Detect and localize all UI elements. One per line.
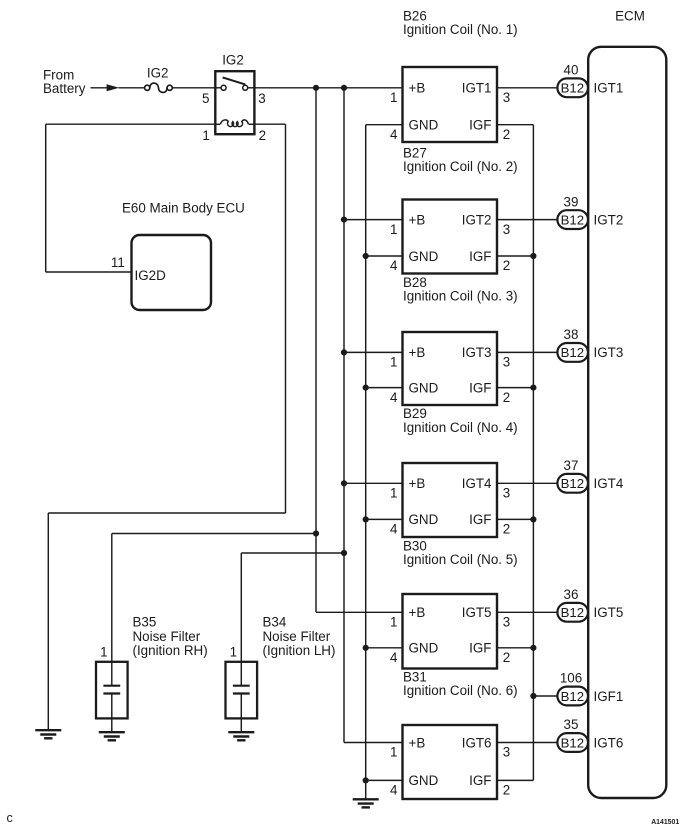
connector B12 pin 106 (IGF1) bbox=[557, 687, 588, 706]
svg-text:B12: B12 bbox=[561, 212, 584, 227]
noise filter B35 (capacitor) bbox=[111, 662, 113, 685]
wire: noise filter B34 feed up/right to bus B bbox=[241, 552, 344, 554]
svg-text:3: 3 bbox=[503, 90, 510, 105]
wire: GND bus vertical bbox=[365, 125, 367, 800]
svg-text:4: 4 bbox=[390, 127, 398, 142]
svg-text:IGT6: IGT6 bbox=[462, 735, 492, 750]
svg-text:E60 Main Body ECU: E60 Main Body ECU bbox=[122, 200, 245, 215]
connector IG2D box bbox=[132, 235, 212, 310]
junction: bus B to B28 +B bbox=[341, 349, 347, 355]
svg-text:(Ignition RH): (Ignition RH) bbox=[133, 643, 208, 658]
svg-text:1: 1 bbox=[390, 615, 397, 630]
wire: coil B27 IGF pin 2 out bbox=[497, 255, 533, 257]
junction: GND bus at coil B30 bbox=[363, 645, 369, 651]
ground: B35 earth bbox=[99, 732, 125, 740]
ignition coil B29 body bbox=[403, 463, 498, 537]
wire: GND bus to coil B27 pin 4 bbox=[366, 255, 403, 257]
wire: relay pin 2 ground run left bbox=[48, 512, 285, 514]
svg-text:IGT5: IGT5 bbox=[462, 605, 492, 620]
wire: bus B to coil B27 +B bbox=[344, 219, 403, 221]
wire: relay pin 5 internal stub bbox=[215, 87, 221, 89]
svg-text:IGT4: IGT4 bbox=[594, 476, 624, 491]
svg-text:1: 1 bbox=[100, 645, 107, 660]
wire: coil B30 IGF pin 2 out bbox=[497, 647, 533, 649]
svg-text:B34: B34 bbox=[263, 615, 287, 630]
svg-text:IGT2: IGT2 bbox=[594, 212, 624, 227]
junction: bus B to B29 +B bbox=[341, 480, 347, 486]
svg-text:IGF: IGF bbox=[469, 249, 491, 264]
svg-text:IGT1: IGT1 bbox=[594, 81, 624, 96]
ignition coil B26 body bbox=[403, 67, 498, 142]
junction: IGF bus at coil B27 bbox=[530, 253, 536, 259]
svg-text:3: 3 bbox=[503, 222, 510, 237]
wire: relay pin 2 run right bbox=[254, 123, 285, 125]
connector B12 pin 35 (IGT6) bbox=[557, 733, 588, 752]
wire: coil B31 IGT pin 3 out bbox=[497, 742, 557, 744]
svg-text:IG2D: IG2D bbox=[135, 268, 167, 283]
svg-text:3: 3 bbox=[503, 615, 510, 630]
svg-text:2: 2 bbox=[503, 522, 510, 537]
svg-text:GND: GND bbox=[409, 641, 439, 656]
connector B12 pin 36 (IGT5) bbox=[557, 603, 588, 622]
wire: bus B to coil B31 +B bbox=[344, 742, 403, 744]
svg-text:c: c bbox=[7, 811, 13, 825]
noise filter B34 (capacitor) bbox=[240, 662, 242, 685]
connector B12 pin 38 (IGT3) bbox=[557, 343, 588, 362]
svg-text:IGF: IGF bbox=[469, 773, 491, 788]
wire: battery feed into arrow bbox=[91, 87, 108, 89]
ignition coil B27 body bbox=[403, 200, 498, 274]
svg-text:2: 2 bbox=[503, 258, 510, 273]
svg-text:+B: +B bbox=[409, 81, 426, 96]
connector B12 pin 39 (IGT2) bbox=[557, 210, 588, 229]
ignition coil B30 body bbox=[403, 594, 498, 669]
ignition coil B28 body bbox=[403, 332, 498, 405]
svg-text:GND: GND bbox=[409, 249, 439, 264]
wire: GND bus to coil B26 pin 4 bbox=[366, 124, 403, 126]
svg-text:IGT3: IGT3 bbox=[462, 345, 492, 360]
junction: IGF bus at coil B29 bbox=[530, 516, 536, 522]
wire: +B bus A vertical bbox=[315, 88, 317, 613]
wire: IGF bus vertical bbox=[532, 125, 534, 781]
junction: IGF bus to IGF1 row bbox=[530, 693, 536, 699]
wire: coil B26 IGF pin 2 out bbox=[497, 124, 533, 126]
svg-text:3: 3 bbox=[503, 745, 510, 760]
wire: bus B to coil B28 +B bbox=[344, 351, 403, 353]
wire: relay pin 3 to coil B26 +B (node IG2 feed) bbox=[254, 87, 402, 89]
svg-text:Battery: Battery bbox=[43, 81, 86, 96]
junction: bus A to noise filter B35 bbox=[313, 530, 319, 536]
svg-text:3: 3 bbox=[258, 91, 265, 106]
wire: arrow to fuse bbox=[119, 87, 145, 89]
svg-text:4: 4 bbox=[390, 390, 398, 405]
svg-text:B12: B12 bbox=[561, 735, 584, 750]
svg-text:GND: GND bbox=[409, 512, 439, 527]
svg-text:Ignition Coil (No. 1): Ignition Coil (No. 1) bbox=[403, 22, 518, 37]
svg-text:IGF1: IGF1 bbox=[594, 689, 624, 704]
junction: GND bus at coil B28 bbox=[363, 385, 369, 391]
svg-text:1: 1 bbox=[202, 128, 209, 143]
wire: noise filter B35 feed up/right to bus A bbox=[112, 533, 316, 535]
ECM body bbox=[588, 47, 666, 798]
svg-text:2: 2 bbox=[503, 783, 510, 798]
wire: relay pin 3 internal stub bbox=[248, 87, 255, 89]
svg-text:4: 4 bbox=[390, 258, 398, 273]
svg-text:B12: B12 bbox=[561, 689, 584, 704]
relay IG2 body bbox=[215, 71, 254, 134]
junction: GND bus at coil B27 bbox=[363, 253, 369, 259]
svg-text:106: 106 bbox=[560, 671, 582, 686]
svg-text:IGT3: IGT3 bbox=[594, 345, 624, 360]
svg-text:IGT1: IGT1 bbox=[462, 81, 492, 96]
svg-text:4: 4 bbox=[390, 522, 398, 537]
wire: coil B28 IGF pin 2 out bbox=[497, 387, 533, 389]
svg-text:3: 3 bbox=[503, 355, 510, 370]
wire: GND bus to coil B29 pin 4 bbox=[366, 518, 403, 520]
svg-text:B35: B35 bbox=[133, 615, 157, 630]
svg-text:B12: B12 bbox=[561, 605, 584, 620]
svg-text:40: 40 bbox=[564, 63, 579, 78]
junction: GND bus at coil B31 bbox=[363, 777, 369, 783]
svg-text:Ignition Coil (No. 5): Ignition Coil (No. 5) bbox=[403, 552, 518, 567]
svg-text:A141501: A141501 bbox=[651, 819, 679, 826]
ground: relay coil earth bbox=[35, 730, 61, 738]
svg-text:+B: +B bbox=[409, 605, 426, 620]
svg-text:Ignition Coil (No. 6): Ignition Coil (No. 6) bbox=[403, 683, 518, 698]
wire: coil B26 IGT pin 3 out bbox=[497, 87, 557, 89]
junction: GND bus at coil B29 bbox=[363, 516, 369, 522]
svg-text:1: 1 bbox=[390, 90, 397, 105]
svg-text:2: 2 bbox=[503, 390, 510, 405]
wire: coil B29 IGT pin 3 out bbox=[497, 482, 557, 484]
wire: coil B27 IGT pin 3 out bbox=[497, 219, 557, 221]
svg-text:Noise Filter: Noise Filter bbox=[263, 629, 331, 644]
svg-text:Ignition Coil (No. 2): Ignition Coil (No. 2) bbox=[403, 159, 518, 174]
svg-text:+B: +B bbox=[409, 212, 426, 227]
svg-text:IGT5: IGT5 bbox=[594, 605, 624, 620]
wire: relay pin 2 drop bbox=[285, 124, 287, 513]
svg-text:11: 11 bbox=[111, 255, 125, 270]
svg-text:Ignition Coil (No. 3): Ignition Coil (No. 3) bbox=[403, 288, 518, 303]
svg-text:36: 36 bbox=[564, 587, 579, 602]
junction: IGF bus at coil B28 bbox=[530, 385, 536, 391]
svg-text:1: 1 bbox=[230, 645, 237, 660]
svg-text:IG2: IG2 bbox=[222, 53, 244, 68]
wire: GND bus to coil B28 pin 4 bbox=[366, 387, 403, 389]
svg-text:1: 1 bbox=[390, 355, 397, 370]
ignition coil B31 body bbox=[403, 725, 498, 799]
junction: +B bus A at top row bbox=[313, 85, 319, 91]
wire: coil B30 IGT pin 3 out bbox=[497, 611, 557, 613]
relay IG2 switch contacts bbox=[221, 85, 248, 90]
svg-text:IGF: IGF bbox=[469, 512, 491, 527]
wire: relay pin 1 to E60 (horizontal) bbox=[46, 123, 216, 125]
wire: fuse to relay pin 5 bbox=[172, 87, 215, 89]
svg-text:35: 35 bbox=[564, 717, 579, 732]
svg-text:IGF: IGF bbox=[469, 380, 491, 395]
battery feed arrow bbox=[107, 84, 120, 91]
svg-text:GND: GND bbox=[409, 118, 439, 133]
svg-text:4: 4 bbox=[390, 783, 398, 798]
svg-text:IGT2: IGT2 bbox=[462, 212, 492, 227]
svg-text:37: 37 bbox=[564, 458, 579, 473]
svg-text:+B: +B bbox=[409, 345, 426, 360]
fuse IG2 bbox=[145, 85, 173, 90]
wire: coil B28 IGT pin 3 out bbox=[497, 351, 557, 353]
svg-text:Ignition Coil (No. 4): Ignition Coil (No. 4) bbox=[403, 420, 518, 435]
wire: drop to left earth bbox=[47, 513, 49, 730]
relay IG2 coil bbox=[215, 123, 220, 125]
junction: bus B to noise filter B34 bbox=[341, 550, 347, 556]
wire: +B bus B vertical bbox=[343, 88, 345, 743]
svg-text:+B: +B bbox=[409, 476, 426, 491]
svg-text:IG2: IG2 bbox=[147, 66, 169, 81]
svg-text:GND: GND bbox=[409, 380, 439, 395]
junction: +B bus B at top row bbox=[341, 85, 347, 91]
junction: bus B to B27 +B bbox=[341, 217, 347, 223]
svg-text:GND: GND bbox=[409, 773, 439, 788]
wire: GND bus to coil B30 pin 4 bbox=[366, 647, 403, 649]
svg-text:(Ignition LH): (Ignition LH) bbox=[263, 643, 336, 658]
svg-text:Noise Filter: Noise Filter bbox=[133, 629, 201, 644]
svg-text:1: 1 bbox=[390, 486, 397, 501]
svg-text:+B: +B bbox=[409, 735, 426, 750]
svg-text:IGF: IGF bbox=[469, 118, 491, 133]
wire: coil B31 IGF pin 2 out bbox=[497, 779, 533, 781]
wire: IGF1 row to ECM connector bbox=[533, 695, 557, 697]
svg-text:4: 4 bbox=[390, 650, 398, 665]
svg-text:B12: B12 bbox=[561, 476, 584, 491]
wire: bus A to coil B30 +B bbox=[316, 611, 403, 613]
wire: coil B29 IGF pin 2 out bbox=[497, 518, 533, 520]
svg-text:ECM: ECM bbox=[615, 8, 645, 23]
junction: IGF bus at coil B30 bbox=[530, 645, 536, 651]
svg-text:2: 2 bbox=[503, 650, 510, 665]
wire: into IG2D pin 11 bbox=[46, 271, 132, 273]
svg-text:1: 1 bbox=[390, 222, 397, 237]
svg-text:1: 1 bbox=[390, 745, 397, 760]
svg-text:IGF: IGF bbox=[469, 641, 491, 656]
svg-text:B12: B12 bbox=[561, 345, 584, 360]
svg-text:2: 2 bbox=[503, 127, 510, 142]
wire: GND bus to coil B31 pin 4 bbox=[366, 779, 403, 781]
svg-text:B12: B12 bbox=[561, 81, 584, 96]
svg-text:38: 38 bbox=[564, 327, 579, 342]
svg-text:IGT6: IGT6 bbox=[594, 735, 624, 750]
svg-text:5: 5 bbox=[202, 91, 209, 106]
ground: B34 earth bbox=[228, 732, 254, 740]
relay IG2 switch blade bbox=[223, 77, 246, 84]
connector B12 pin 37 (IGT4) bbox=[557, 474, 588, 493]
connector B12 pin 40 (IGT1) bbox=[557, 78, 588, 97]
svg-text:IGT4: IGT4 bbox=[462, 476, 492, 491]
wire: bus B to coil B29 +B bbox=[344, 482, 403, 484]
wire: relay pin 1 drop to IG2D bbox=[45, 124, 47, 272]
svg-text:39: 39 bbox=[564, 194, 579, 209]
svg-text:2: 2 bbox=[259, 128, 266, 143]
ground: GND bus earth bbox=[353, 799, 379, 807]
svg-text:3: 3 bbox=[503, 486, 510, 501]
